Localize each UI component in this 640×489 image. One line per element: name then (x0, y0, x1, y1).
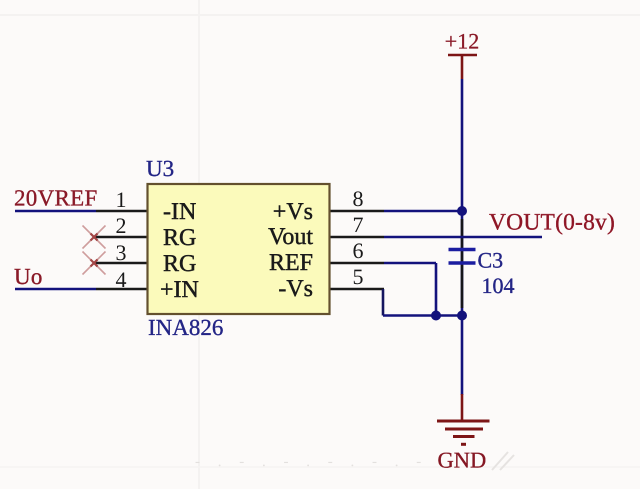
ground bar 1 (437, 420, 490, 423)
power +12 bar (448, 54, 477, 57)
svg-text:GND: GND (438, 448, 487, 473)
svg-text:+12: +12 (445, 29, 479, 54)
op-amp U3 pin 6 (330, 262, 384, 265)
svg-text:1: 1 (116, 187, 127, 212)
svg-text:+Vs: +Vs (273, 199, 313, 225)
wire pin7 VOUT (384, 236, 542, 239)
ground bar 4 (461, 443, 466, 446)
svg-text:6: 6 (353, 238, 364, 263)
faint grid line horizontal (0, 14, 640, 16)
svg-text:-IN: -IN (163, 199, 196, 225)
wire bottom run (383, 314, 462, 317)
GND stem (red) (461, 394, 464, 421)
op-amp U3 body INA826 (148, 184, 330, 314)
op-amp U3 pin 8 (330, 210, 384, 213)
faint grid line vertical (198, 0, 200, 489)
junction bottom/main vertical (457, 311, 467, 321)
no-connect X on pin 3 (83, 252, 106, 275)
svg-text:Uo: Uo (14, 264, 43, 289)
C3 pin overlay (black) (461, 219, 464, 308)
svg-text:4: 4 (116, 267, 127, 292)
wire pin5 down (382, 289, 385, 316)
svg-text:REF: REF (269, 250, 313, 276)
ground bar 2 (445, 428, 483, 431)
svg-text:VOUT(0-8v): VOUT(0-8v) (489, 210, 615, 236)
op-amp U3 pin 2 (95, 236, 147, 239)
faint watermark slash (492, 452, 514, 470)
wire pin8 to +12 vertical (384, 210, 462, 213)
svg-text:8: 8 (353, 186, 364, 211)
svg-text:Vout: Vout (268, 224, 313, 250)
wire +12 down to pin8 junction (461, 79, 464, 211)
svg-text:5: 5 (353, 264, 364, 289)
svg-text:104: 104 (482, 273, 515, 298)
svg-text:7: 7 (353, 212, 364, 237)
svg-text:3: 3 (116, 240, 127, 265)
capacitor C3 bottom plate (449, 261, 476, 264)
wire pin6 down (435, 263, 438, 316)
svg-text:U3: U3 (146, 156, 174, 181)
op-amp U3 pin 4 (96, 288, 147, 291)
junction at pin8/+12 (457, 206, 467, 216)
svg-text:C3: C3 (478, 248, 504, 273)
op-amp U3 pin 7 (330, 236, 384, 239)
faint grid line horizontal lower (0, 466, 640, 468)
wire net 20VREF to pin1 (15, 210, 96, 213)
wire pin6 right (384, 262, 436, 265)
svg-text:20VREF: 20VREF (14, 186, 98, 211)
svg-text:INA826: INA826 (148, 315, 223, 340)
power +12 stem (461, 55, 464, 79)
wire net Uo to pin4 (15, 288, 96, 291)
svg-text:-Vs: -Vs (278, 276, 313, 302)
ground bar 3 (453, 435, 475, 438)
no-connect X on pin 2 (83, 226, 106, 249)
op-amp U3 pin 1 (96, 210, 147, 213)
op-amp U3 pin 5 (330, 288, 384, 291)
svg-text:- . - . - . - . - . - .: - . - . - . - . - . - . (195, 454, 450, 470)
wire junction down to C3 top (461, 211, 464, 316)
op-amp U3 pin 3 (95, 262, 147, 265)
junction pin6/bottom (431, 311, 441, 321)
svg-text:+IN: +IN (160, 277, 199, 303)
capacitor C3 top plate (449, 248, 476, 251)
svg-text:RG: RG (163, 251, 196, 277)
svg-text:RG: RG (163, 225, 196, 251)
wire junction down toward GND (461, 316, 464, 396)
svg-text:2: 2 (116, 213, 127, 238)
